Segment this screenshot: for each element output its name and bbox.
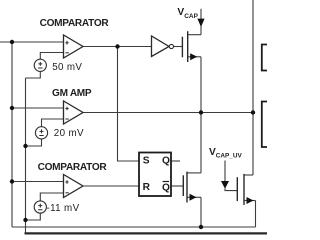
- transistor Q3 gate bar: [236, 177, 238, 201]
- wire VCAP_UV arrow lead: [224, 161, 226, 182]
- svg-text:Q: Q: [162, 155, 170, 166]
- svg-text:S: S: [143, 155, 150, 166]
- svg-text:VCAP_UV: VCAP_UV: [209, 147, 242, 160]
- wire GM amp + input: [12, 107, 64, 109]
- wire Q1 drain: [188, 34, 201, 36]
- transistor Q3 channel bar: [243, 174, 245, 205]
- wire VCAP riser: [200, 9, 202, 35]
- svg-text:COMPARATOR: COMPARATOR: [40, 18, 110, 29]
- voltage source V1 plusminus symbol: [38, 62, 42, 68]
- voltage source V1 50mV circle: [34, 59, 46, 71]
- wire rail A up to Q3 source: [255, 201, 257, 228]
- wire comparator3 output to latch R input: [83, 185, 139, 187]
- resistor R1 partial box at right edge: [262, 45, 267, 71]
- svg-text:Q: Q: [162, 182, 170, 193]
- node -11mV return: [23, 218, 27, 222]
- wire comparator3 + input: [12, 181, 64, 183]
- wire GM amp - input to 20mV source: [42, 119, 64, 127]
- wire Q3 drain: [244, 174, 253, 176]
- wire Q2 source down to rail: [200, 197, 202, 227]
- wire -11mV source bottom to second bus: [26, 213, 41, 220]
- wire GM amp output: [83, 112, 253, 114]
- SR latch U5 Qbar overline: [163, 181, 169, 183]
- node GM output right: [251, 110, 255, 114]
- node comparator1 output branch: [115, 44, 119, 48]
- GM amp U2 plus sign: [65, 107, 68, 119]
- voltage source V3 -11mV circle: [34, 201, 46, 213]
- voltage source V2 plusminus symbol: [39, 129, 43, 135]
- wire inverter output to Q1 gate: [174, 46, 183, 48]
- VCAP current arrow: [197, 19, 204, 27]
- wire latch Qbar to Q2 gate: [171, 185, 183, 187]
- comparator U3 plus sign: [65, 180, 68, 193]
- comparator U1 minus sign: [65, 52, 68, 54]
- GM amp U2 minus sign: [65, 118, 68, 120]
- wire left bus: [11, 42, 13, 227]
- node Q2 source rail: [199, 225, 203, 229]
- transistor Q1 channel bar: [187, 31, 189, 62]
- node 20mV return: [23, 144, 27, 148]
- comparator U3 minus sign: [65, 192, 68, 194]
- wire Q2 drain: [187, 172, 201, 174]
- wire comparator1 output to inverter: [83, 46, 152, 48]
- GM amp U2 triangle: [64, 101, 84, 124]
- transistor Q2 source arrow: [190, 194, 197, 201]
- svg-text:20 mV: 20 mV: [54, 128, 84, 139]
- wire Q3 source: [244, 200, 256, 202]
- wire Q1 source riser down to Q2 drain: [200, 57, 202, 173]
- wire comparator3 - input to -11mV source: [40, 193, 63, 201]
- svg-text:VCAP: VCAP: [177, 7, 198, 20]
- transistor Q1 source arrow: [190, 53, 197, 60]
- inverter U4 triangle: [152, 36, 170, 57]
- wire second bus: [25, 78, 27, 233]
- node comparator3 + bus: [10, 179, 14, 183]
- transistor Q3 source arrow: [247, 197, 254, 204]
- node comparator1 + bus: [10, 40, 14, 44]
- SR latch U5 box: [139, 153, 171, 197]
- wire 20mV source bottom to second bus: [26, 139, 42, 146]
- voltage source V3 plusminus symbol: [38, 204, 42, 210]
- wire comparator1 - input to 50mV source: [40, 53, 63, 60]
- svg-text:-11 mV: -11 mV: [47, 203, 80, 214]
- wire 50mV source bottom to second bus: [26, 71, 41, 78]
- SR latch U5 labels: [143, 155, 170, 193]
- comparator U1 triangle: [64, 35, 84, 58]
- wire right vertical from top edge to Q3 drain: [252, 0, 254, 175]
- svg-text:R: R: [143, 182, 151, 193]
- svg-text:COMPARATOR: COMPARATOR: [38, 162, 108, 173]
- wire comparator1 + input from left edge: [0, 41, 64, 43]
- transistor Q2 gate bar: [182, 175, 184, 196]
- node GM amp + bus: [10, 106, 14, 110]
- voltage source V2 20mV circle: [35, 127, 47, 139]
- comparator U3 triangle: [64, 175, 84, 198]
- VCAP_UV signal arrow: [221, 181, 229, 189]
- resistor R2 partial box at right edge: [262, 102, 267, 148]
- wire latch Q output stub: [171, 160, 180, 162]
- wire bottom rail A: [12, 226, 256, 228]
- svg-text:GM AMP: GM AMP: [52, 88, 92, 99]
- bottom rail B (bold ground rail): [25, 232, 268, 234]
- comparator U1 plus sign: [65, 41, 68, 53]
- junction node dots: [10, 40, 255, 229]
- transistor Q1 gate bar: [181, 37, 183, 58]
- node GM output Q1 source: [199, 110, 203, 114]
- svg-text:50 mV: 50 mV: [52, 62, 82, 73]
- wire VCAP_UV to Q3 gate: [225, 189, 237, 191]
- wire Q2 source: [187, 196, 201, 198]
- transistor Q2 channel bar: [186, 172, 188, 203]
- inverter U4 bubble: [169, 44, 173, 48]
- wire Q1 source: [188, 56, 201, 58]
- wire comparator1 output to latch S input: [118, 47, 140, 162]
